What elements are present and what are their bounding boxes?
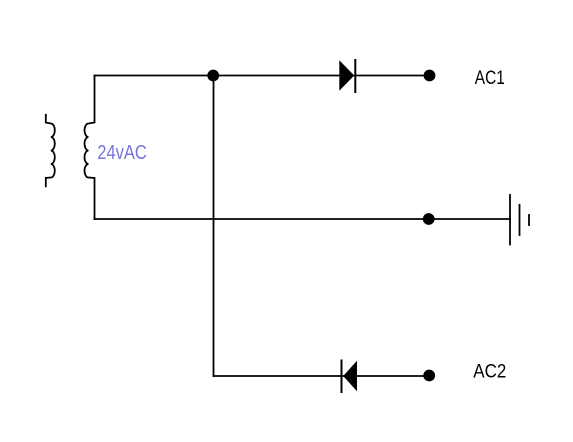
svg-text:AC1: AC1 <box>475 68 505 89</box>
svg-text:AC2: AC2 <box>473 362 506 383</box>
svg-text:24vAC: 24vAC <box>97 142 147 164</box>
